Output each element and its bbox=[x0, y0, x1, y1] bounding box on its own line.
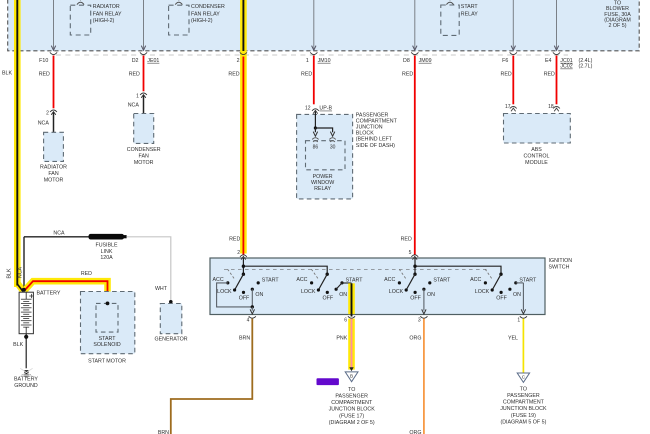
destination label fuse 19 bbox=[500, 386, 547, 425]
svg-text:ACC: ACC bbox=[296, 277, 307, 283]
svg-text:86: 86 bbox=[313, 144, 319, 150]
connector E4 JC01 JC02 bbox=[545, 52, 593, 69]
ABS control module label bbox=[524, 147, 550, 166]
connector 2 radiator bbox=[46, 110, 57, 117]
svg-text:START: START bbox=[433, 278, 451, 284]
svg-text:BLOCK: BLOCK bbox=[356, 131, 374, 137]
wire wafer4 START to pin 1 bbox=[516, 283, 526, 314]
svg-text:RELAY: RELAY bbox=[461, 11, 478, 17]
wire feed in PDC bbox=[554, 0, 558, 50]
connector pin 3 bbox=[418, 316, 428, 323]
svg-text:RADIATOR: RADIATOR bbox=[40, 164, 67, 170]
svg-text:1: 1 bbox=[136, 94, 139, 100]
wire feed in PDC bbox=[141, 0, 145, 50]
svg-text:MOTOR: MOTOR bbox=[44, 178, 64, 184]
wire RED D2 bbox=[129, 56, 144, 92]
svg-text:BRN: BRN bbox=[158, 430, 169, 434]
off-page connector B bbox=[345, 372, 358, 382]
svg-text:ORG: ORG bbox=[409, 430, 421, 434]
wire RED JM10 bbox=[301, 56, 314, 105]
wire NCA radiator bbox=[38, 113, 54, 133]
connector D8 JM09 bbox=[403, 52, 432, 64]
svg-text:NCA: NCA bbox=[38, 120, 50, 126]
wire ORG pin 3 bbox=[409, 319, 423, 434]
svg-text:BLK: BLK bbox=[2, 70, 12, 76]
svg-text:(DIAGRAM 2 OF 5): (DIAGRAM 2 OF 5) bbox=[329, 420, 375, 426]
junction block box bbox=[297, 114, 353, 198]
svg-text:GROUND: GROUND bbox=[14, 383, 38, 389]
connector pin 4 bbox=[247, 316, 256, 323]
svg-text:BRN: BRN bbox=[239, 335, 250, 341]
svg-text:RED: RED bbox=[402, 71, 413, 77]
wire RED battery to start solenoid highlighted bbox=[25, 271, 108, 302]
connector 2 on feed bbox=[228, 52, 247, 256]
svg-text:PASSENGER: PASSENGER bbox=[507, 393, 540, 399]
svg-text:(DIAGRAM 5 OF 5): (DIAGRAM 5 OF 5) bbox=[500, 419, 546, 425]
svg-text:TO: TO bbox=[520, 386, 527, 392]
start relay K3 bbox=[441, 0, 479, 35]
connector 18 bbox=[548, 104, 560, 111]
svg-text:(HIGH-2): (HIGH-2) bbox=[93, 18, 115, 24]
svg-text:2: 2 bbox=[46, 111, 49, 117]
svg-text:F10: F10 bbox=[39, 58, 48, 64]
svg-text:JM09: JM09 bbox=[419, 58, 432, 64]
svg-text:BLK: BLK bbox=[13, 342, 23, 348]
svg-text:LOCK: LOCK bbox=[301, 289, 316, 295]
radiator fan motor M1 bbox=[40, 132, 67, 183]
svg-text:BATTERY: BATTERY bbox=[37, 291, 61, 297]
svg-text:FAN RELAY: FAN RELAY bbox=[191, 11, 220, 17]
svg-text:JC02: JC02 bbox=[560, 64, 572, 70]
svg-text:COMPARTMENT: COMPARTMENT bbox=[503, 400, 545, 406]
power window relay K4 bbox=[306, 138, 346, 192]
generator G1 bbox=[154, 304, 187, 343]
svg-text:COMPARTMENT: COMPARTMENT bbox=[356, 118, 398, 124]
svg-text:SWITCH: SWITCH bbox=[549, 265, 570, 271]
svg-text:LOCK: LOCK bbox=[389, 289, 404, 295]
connector pin 5 bbox=[409, 250, 419, 259]
svg-text:JUNCTION: JUNCTION bbox=[356, 125, 383, 131]
wire PNK pin 6 highlighted bbox=[336, 319, 353, 372]
wire RED ignition feed highlighted bbox=[240, 0, 247, 255]
label BLK top left bbox=[2, 70, 12, 76]
svg-text:ON: ON bbox=[339, 292, 347, 298]
node battery positive bbox=[22, 288, 26, 292]
svg-text:18: 18 bbox=[548, 104, 554, 110]
svg-text:1: 1 bbox=[517, 318, 520, 324]
svg-text:5: 5 bbox=[409, 250, 412, 256]
svg-text:(FUSE 17): (FUSE 17) bbox=[339, 413, 364, 419]
svg-text:2: 2 bbox=[237, 58, 240, 64]
ignition switch wafer 2 bbox=[296, 269, 363, 301]
svg-text:IGNITION: IGNITION bbox=[549, 258, 573, 264]
svg-text:RED: RED bbox=[81, 271, 92, 277]
svg-text:SIDE OF DASH): SIDE OF DASH) bbox=[356, 143, 395, 149]
ignition switch box S1 bbox=[210, 258, 572, 315]
svg-text:RED: RED bbox=[401, 236, 412, 242]
wire BRN pin 4 bbox=[158, 319, 252, 434]
svg-text:NCA: NCA bbox=[17, 266, 23, 278]
svg-text:OFF: OFF bbox=[239, 296, 250, 302]
svg-text:3: 3 bbox=[418, 318, 421, 324]
connector pin 2 bbox=[240, 255, 247, 260]
svg-text:F6: F6 bbox=[502, 58, 508, 64]
ignition switch wafer 4 bbox=[470, 269, 537, 301]
svg-text:LINK: LINK bbox=[101, 249, 113, 255]
blower fuse note bbox=[604, 1, 631, 29]
wire NCA to fusible link bbox=[24, 231, 89, 289]
wire feed in PDC bbox=[413, 0, 417, 50]
svg-text:BLK: BLK bbox=[7, 268, 13, 278]
svg-text:RED: RED bbox=[39, 71, 50, 77]
svg-text:RED: RED bbox=[229, 236, 240, 242]
wire RED F6 bbox=[501, 56, 514, 105]
condenser fan relay K2 bbox=[169, 0, 225, 35]
svg-text:YEL: YEL bbox=[508, 335, 518, 341]
svg-text:MODULE: MODULE bbox=[525, 160, 548, 166]
ignition switch wafer 3 bbox=[384, 258, 501, 302]
mechanical linkage dashed bbox=[224, 268, 489, 270]
wire BLK battery ground bbox=[13, 334, 28, 368]
wire wafer1 ACC-ON bridge to pin 4 bbox=[217, 283, 255, 314]
connector 17 bbox=[505, 104, 517, 111]
svg-text:D8: D8 bbox=[403, 58, 410, 64]
wire feed in PDC bbox=[51, 0, 55, 50]
svg-text:RED: RED bbox=[544, 71, 555, 77]
svg-text:CONTROL: CONTROL bbox=[524, 154, 550, 160]
svg-text:PASSENGER: PASSENGER bbox=[356, 112, 389, 118]
wire inside junction block bbox=[313, 112, 335, 137]
wire wafer2 START contact highlighted bbox=[336, 283, 351, 317]
svg-text:RED: RED bbox=[129, 71, 140, 77]
svg-text:FAN: FAN bbox=[48, 171, 58, 177]
wire RED E4 bbox=[544, 56, 557, 105]
svg-text:ABS: ABS bbox=[531, 147, 542, 153]
junction block label bbox=[356, 112, 398, 149]
start solenoid L1 bbox=[93, 302, 121, 348]
svg-text:FAN: FAN bbox=[139, 153, 149, 159]
svg-text:START MOTOR: START MOTOR bbox=[88, 358, 126, 364]
wire YEL pin 1 bbox=[508, 319, 523, 373]
radiator fan relay K1 bbox=[70, 0, 122, 35]
start motor box bbox=[81, 292, 135, 354]
svg-text:CONDENSER: CONDENSER bbox=[127, 147, 161, 153]
svg-text:ON: ON bbox=[513, 292, 521, 298]
ignition switch wafer 1 bbox=[213, 258, 328, 302]
svg-text:(BEHIND LEFT: (BEHIND LEFT bbox=[356, 137, 393, 143]
connector F10 bbox=[39, 52, 57, 64]
svg-text:TO: TO bbox=[348, 387, 355, 393]
svg-text:ON: ON bbox=[427, 292, 435, 298]
connector pin 6 bbox=[344, 316, 355, 323]
connector dashed line bbox=[56, 54, 568, 56]
power distribution center box bbox=[8, 0, 640, 51]
svg-text:JUNCTION BLOCK: JUNCTION BLOCK bbox=[500, 406, 547, 412]
svg-text:(FUSE 19): (FUSE 19) bbox=[511, 413, 536, 419]
svg-text:JUNCTION BLOCK: JUNCTION BLOCK bbox=[329, 407, 376, 413]
connector D2 JE01 bbox=[132, 52, 160, 64]
svg-text:JM10: JM10 bbox=[318, 58, 331, 64]
svg-text:FAN RELAY: FAN RELAY bbox=[93, 11, 122, 17]
wire BLK battery feed highlighted bbox=[17, 0, 23, 292]
svg-text:2: 2 bbox=[237, 250, 240, 256]
highlight marker bbox=[317, 378, 339, 385]
svg-text:ACC: ACC bbox=[470, 277, 481, 283]
svg-text:RED: RED bbox=[501, 71, 512, 77]
svg-text:120A: 120A bbox=[100, 255, 113, 261]
svg-text:4: 4 bbox=[247, 318, 250, 324]
svg-text:NCA: NCA bbox=[128, 102, 140, 108]
svg-text:RED: RED bbox=[301, 71, 312, 77]
svg-text:WHT: WHT bbox=[155, 286, 168, 292]
connector 1 JM10 bbox=[306, 52, 331, 64]
svg-text:2 OF 5): 2 OF 5) bbox=[609, 23, 627, 29]
svg-text:ACC: ACC bbox=[213, 277, 224, 283]
svg-text:E4: E4 bbox=[545, 58, 552, 64]
svg-text:JE01: JE01 bbox=[147, 58, 159, 64]
svg-text:CONDENSER: CONDENSER bbox=[191, 4, 225, 10]
svg-text:MOTOR: MOTOR bbox=[134, 160, 154, 166]
svg-text:NCA: NCA bbox=[53, 231, 65, 237]
svg-text:OFF: OFF bbox=[496, 296, 507, 302]
destination label fuse 17 bbox=[329, 387, 376, 426]
wire feed in PDC bbox=[312, 0, 316, 50]
svg-text:(2.7L): (2.7L) bbox=[579, 64, 593, 70]
condenser fan motor M2 bbox=[127, 114, 161, 167]
connector 12 UP-B bbox=[305, 106, 332, 114]
svg-text:ACC: ACC bbox=[384, 277, 395, 283]
svg-text:RADIATOR: RADIATOR bbox=[93, 4, 120, 10]
off-page connector C bbox=[517, 373, 529, 382]
ground G100 bbox=[14, 368, 38, 389]
connector F6 bbox=[502, 52, 517, 64]
svg-text:BATTERY: BATTERY bbox=[14, 377, 38, 383]
svg-text:SOLENOID: SOLENOID bbox=[93, 342, 121, 348]
svg-text:START: START bbox=[262, 278, 280, 284]
svg-text:ORG: ORG bbox=[409, 335, 421, 341]
svg-text:RED: RED bbox=[228, 71, 239, 77]
svg-text:START: START bbox=[461, 4, 479, 10]
wire wafer3 ON to pin 3 bbox=[422, 289, 426, 314]
ABS control module box bbox=[504, 114, 571, 144]
wire WHT to generator bbox=[127, 237, 173, 304]
svg-text:UP-B: UP-B bbox=[319, 106, 332, 112]
svg-text:LOCK: LOCK bbox=[217, 289, 232, 295]
svg-text:PASSENGER: PASSENGER bbox=[335, 394, 368, 400]
svg-text:COMPARTMENT: COMPARTMENT bbox=[331, 400, 373, 406]
svg-text:(HIGH-2): (HIGH-2) bbox=[191, 18, 213, 24]
svg-text:OFF: OFF bbox=[410, 296, 421, 302]
svg-text:LOCK: LOCK bbox=[475, 289, 490, 295]
wire feed in PDC bbox=[511, 0, 515, 50]
rotated wire labels BLK NCA bbox=[7, 266, 24, 278]
wire RED F10 bbox=[39, 56, 54, 109]
connector pin 1 bbox=[517, 316, 527, 323]
wire NCA condenser bbox=[128, 96, 144, 114]
svg-text:17: 17 bbox=[505, 104, 511, 110]
battery BT1 bbox=[19, 291, 61, 334]
svg-text:FUSIBLE: FUSIBLE bbox=[95, 243, 118, 249]
svg-text:6: 6 bbox=[344, 318, 347, 324]
connector 1 condenser bbox=[136, 93, 147, 100]
svg-text:B: B bbox=[350, 374, 353, 379]
svg-text:D2: D2 bbox=[132, 58, 139, 64]
svg-text:GENERATOR: GENERATOR bbox=[154, 337, 187, 343]
svg-text:ON: ON bbox=[255, 292, 263, 298]
start motor label bbox=[88, 358, 126, 364]
wire RED JM09 bbox=[401, 56, 415, 256]
svg-text:RELAY: RELAY bbox=[314, 186, 331, 192]
svg-text:12: 12 bbox=[305, 106, 311, 112]
svg-text:1: 1 bbox=[306, 58, 309, 64]
fusible link F1 120A bbox=[89, 234, 127, 261]
svg-text:30: 30 bbox=[330, 144, 336, 150]
svg-text:PNK: PNK bbox=[336, 335, 347, 341]
svg-text:OFF: OFF bbox=[323, 296, 334, 302]
